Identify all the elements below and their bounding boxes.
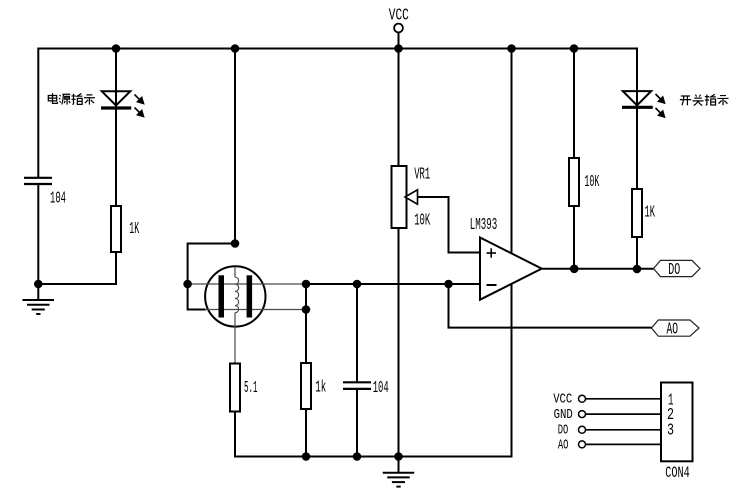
wire R6 to DO node: [636, 237, 638, 269]
wire LED1 branch through LED to R1: [115, 49, 117, 207]
wire sensor left hook: [188, 244, 235, 310]
svg-text:DO: DO: [668, 260, 680, 279]
label 开关指示: [680, 94, 729, 105]
ground middle: [383, 457, 415, 487]
wire VR1 wiper to op-amp plus input: [418, 197, 481, 253]
svg-text:VCC: VCC: [553, 392, 572, 408]
CON4 pin VCC: [553, 392, 661, 408]
resistor R3 1k: [301, 363, 311, 409]
LED D1 power indicator: [101, 91, 131, 108]
svg-text:104: 104: [50, 190, 66, 209]
wire left ground branch: [38, 184, 116, 285]
capacitor C2 104: [343, 382, 371, 389]
junction left rail / ground: [34, 280, 43, 289]
junction output / R6: [633, 265, 642, 274]
wire minus input net: [306, 283, 480, 285]
LED D2 switch indicator: [622, 91, 653, 107]
svg-text:3: 3: [667, 421, 674, 440]
junction sensor pin B / divider: [302, 305, 311, 314]
svg-text:1K: 1K: [645, 204, 656, 223]
junction VCC bus / LED1 branch: [112, 44, 121, 53]
wire R2 to ground bus and ground bus run: [235, 284, 512, 457]
VCC symbol: [389, 7, 409, 33]
net flag DO: [654, 260, 701, 279]
svg-text:1K: 1K: [129, 220, 139, 239]
svg-text:CON4: CON4: [665, 464, 690, 482]
junction ground bus / C2: [353, 452, 362, 461]
junction sensor branch / left hook: [231, 239, 240, 248]
wire R5 upper lead: [573, 49, 575, 159]
ground left: [23, 284, 55, 314]
svg-text:AO: AO: [558, 437, 569, 453]
svg-text:DO: DO: [558, 423, 569, 439]
gas sensor MQ: [188, 266, 306, 363]
wire sensor divider node vertical: [305, 284, 307, 363]
svg-text:104: 104: [373, 379, 389, 398]
junction C2 / minus net: [353, 280, 362, 289]
svg-text:10K: 10K: [584, 173, 599, 192]
wire op-amp output to DO: [542, 268, 654, 270]
junction ground bus / ground symbol: [394, 452, 403, 461]
resistor R2 5.1: [230, 364, 240, 412]
CON4 pin AO: [558, 437, 661, 453]
wire VR1 to ground bus: [398, 228, 400, 457]
junction AO tap / minus net: [444, 280, 453, 289]
svg-text:GND: GND: [554, 407, 573, 423]
svg-text:AO: AO: [667, 319, 679, 338]
op-amp U1 LM393: [480, 238, 542, 300]
junction output / R5: [570, 265, 579, 274]
wire VCC stub: [398, 33, 400, 49]
wire sensor top: [234, 49, 236, 244]
junction hook / sensor pin A: [183, 280, 192, 289]
wire cap C2 upper lead: [356, 284, 358, 381]
capacitor C1 104: [24, 178, 52, 184]
svg-text:5.1: 5.1: [244, 379, 258, 398]
svg-text:10K: 10K: [414, 212, 430, 231]
wire cap C2 lower lead: [356, 390, 358, 457]
wire R5 lower lead: [573, 206, 575, 269]
junction VCC bus / VCC stub / VR1: [394, 44, 403, 53]
svg-text:VR1: VR1: [414, 165, 430, 184]
LED D2 arrows: [656, 94, 665, 117]
wire top VCC bus: [38, 49, 637, 190]
potentiometer VR1 10K: [392, 166, 418, 228]
node divider top: [302, 280, 311, 289]
net flag AO: [652, 319, 700, 338]
junction ground bus / R3: [302, 452, 311, 461]
wire AO tap: [449, 284, 652, 328]
junction VCC bus / R5: [570, 44, 579, 53]
resistor R6 1K: [632, 189, 642, 237]
svg-text:LM393: LM393: [470, 216, 498, 235]
LED D1 arrows: [135, 95, 144, 117]
wire VCC to VR1: [398, 49, 400, 167]
label 电源指示: [48, 93, 95, 104]
CON4 pin GND: [554, 407, 661, 423]
resistor R1 1K: [111, 206, 121, 252]
connector CON4: [661, 383, 693, 462]
wire op-amp V+ pin: [511, 49, 513, 253]
svg-text:1k: 1k: [315, 379, 326, 398]
junction VCC bus / op-amp V+ pin: [507, 44, 516, 53]
junction VCC bus / sensor branch: [231, 44, 240, 53]
wire R3 to ground bus: [305, 409, 307, 457]
CON4 pin DO: [558, 423, 661, 439]
resistor R5 10K: [569, 158, 579, 206]
